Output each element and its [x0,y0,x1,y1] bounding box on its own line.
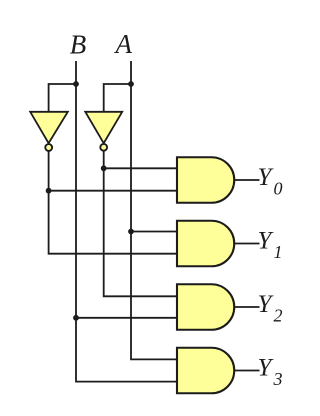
svg-text:A: A [114,29,133,59]
svg-text:0: 0 [274,179,283,199]
svg-text:B: B [70,30,87,60]
svg-text:1: 1 [274,242,283,262]
svg-text:2: 2 [274,306,283,326]
svg-text:3: 3 [273,369,283,389]
